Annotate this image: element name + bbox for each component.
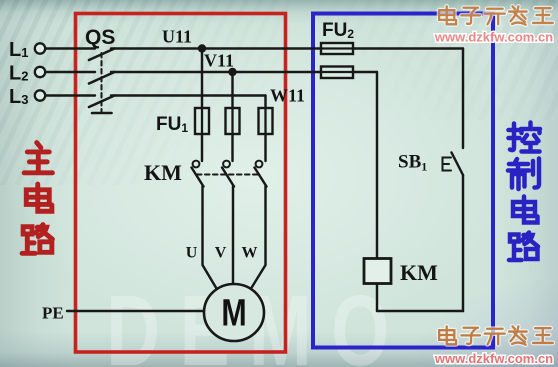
control circuit blue border box (313, 14, 493, 348)
svg-text:L1: L1 (9, 39, 28, 61)
wire coil bottom (376, 284, 378, 312)
svg-text:V11: V11 (204, 51, 234, 71)
contactor KM main contact 2 (222, 168, 234, 187)
wire L3 after switch (111, 94, 266, 96)
switch QS pole 1 blade (89, 49, 115, 61)
svg-text:U11: U11 (162, 27, 192, 47)
svg-text:QS: QS (85, 26, 115, 49)
terminal L3 (35, 90, 45, 100)
terminal L2 (35, 67, 45, 77)
wire L1 phase line (45, 47, 95, 49)
wire PE to motor (67, 310, 205, 312)
svg-text:W: W (242, 245, 258, 262)
svg-text:PE: PE (42, 304, 64, 323)
svg-text:W11: W11 (270, 86, 305, 106)
motor M circle (204, 284, 264, 341)
switch QS pole 3 blade (89, 96, 115, 108)
contactor KM linkage dashed (197, 174, 259, 176)
contactor KM contact terminal 3 (256, 161, 263, 168)
fuse FU2 element b (321, 67, 353, 79)
contactor coil KM (364, 259, 391, 284)
svg-text:L2: L2 (9, 63, 28, 85)
fuse FU1 element a (195, 108, 209, 134)
node U11 junction dot (198, 44, 206, 52)
pushbutton SB1 actuator (443, 158, 452, 171)
wire coil top to FU2b line (376, 72, 378, 259)
wire L2 phase line (45, 71, 95, 73)
contactor KM main contact 1 (192, 168, 204, 187)
wire L3 phase line (45, 94, 95, 96)
wire SB1 to bottom (377, 175, 463, 311)
contactor KM main contact 3 (255, 168, 267, 187)
wire motor lead V (232, 186, 234, 285)
watermark logo top-right: dianzi kaifa wang (439, 6, 553, 24)
watermark logo bottom-right: dianzi kaifa wang (439, 326, 553, 344)
main circuit red border box (76, 14, 286, 353)
svg-text:FU2: FU2 (322, 20, 354, 41)
fuse FU1 element b (226, 108, 240, 134)
svg-text:SB1: SB1 (398, 152, 427, 174)
wire U11 branch down through FU1 (201, 49, 203, 162)
wire L2 after switch to coil branch (111, 71, 377, 73)
svg-text:U: U (186, 245, 198, 262)
switch QS pole 2 blade (89, 72, 115, 84)
switch QS handle bar (92, 112, 112, 115)
svg-text:KM: KM (144, 160, 182, 185)
svg-text:www.dzkfw.com.cn: www.dzkfw.com.cn (434, 30, 553, 45)
wire L1 after switch to FU2 (111, 47, 463, 49)
wire FU2 right drop to SB1 (462, 49, 464, 149)
terminal L1 (35, 43, 45, 53)
svg-text:KM: KM (400, 260, 438, 285)
switch QS linkage dashed (101, 53, 103, 112)
contactor KM contact terminal 1 (193, 161, 200, 168)
wire motor lead W (250, 186, 266, 291)
pushbutton SB1 blade (452, 153, 464, 176)
wire motor lead U (203, 186, 219, 291)
svg-text:www.dzkfw.com.cn: www.dzkfw.com.cn (434, 351, 553, 366)
svg-text:FU1: FU1 (156, 114, 188, 135)
fuse FU2 element a (321, 43, 353, 54)
svg-text:L3: L3 (9, 86, 28, 108)
vertical caption: control circuit (kong zhi dian lu) blue (508, 123, 540, 261)
contactor KM contact terminal 2 (223, 161, 230, 168)
DEMO watermark (106, 281, 409, 367)
wire V11 branch down through FU1 (231, 72, 233, 161)
svg-text:V: V (215, 245, 227, 262)
svg-text:M: M (221, 292, 246, 334)
fuse FU1 element c (259, 108, 273, 134)
node V11 junction dot (228, 68, 236, 76)
vertical caption: main circuit (zhu dian lu) red (22, 143, 52, 254)
wire W11 branch down through FU1 (264, 96, 266, 162)
